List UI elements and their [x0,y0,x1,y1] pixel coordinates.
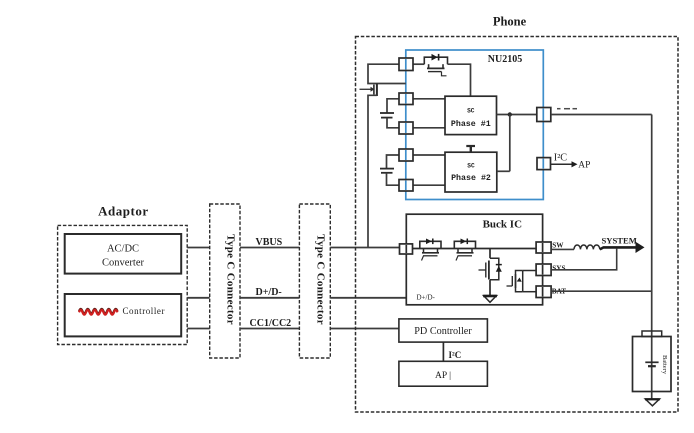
wire pin1 right to Q2 [413,63,424,65]
wire SYS up to system rail [551,248,617,269]
svg-text:SYSTEM: SYSTEM [602,236,637,246]
node junction dot [508,112,512,116]
phase 1 box [445,96,497,134]
wire M4 to SYS pin [523,270,536,272]
transistor Q2 channel/gate [428,64,430,68]
wire rail down to M3 [489,249,491,259]
type C connector 2 [299,204,330,358]
svg-text:Buck IC: Buck IC [483,219,522,231]
svg-text:Type C Connector: Type C Connector [315,234,327,325]
adaptor dashed box [58,225,188,344]
wire CC1/CC2 to PD controller [330,328,399,330]
transistor M2 body-diode loop [454,241,475,248]
svg-text:PD Controller: PD Controller [414,326,472,337]
wire VBUS between connectors [240,247,299,249]
transistor Q1 (VBUS FET) [360,88,371,90]
node VBAT rail down [651,115,653,400]
pin P2 [399,93,413,105]
wire inductor to SYSTEM arrow [600,247,636,249]
buck rail [406,248,536,250]
svg-text:I²C: I²C [554,153,567,164]
wire CC1/CC2 between connectors [240,328,299,330]
svg-text:Converter: Converter [102,258,144,269]
SYSTEM arrowhead [636,242,645,253]
capacitor C1 [380,112,394,114]
pin BAT [536,286,551,298]
transistor M2 channel/gate [457,249,459,253]
svg-text:CC1/CC2: CC1/CC2 [250,318,292,329]
battery ground [645,399,659,406]
battery body [633,337,672,392]
svg-text:Adaptor: Adaptor [98,204,148,219]
wire SW to inductor [551,248,574,250]
transistor M4 battery FET [516,271,523,275]
wire adaptor to connector1 (D) [187,297,210,299]
wire adaptor to connector1 (VBUS) [187,247,210,249]
svg-text:AP |: AP | [435,371,451,381]
transistor M1 channel/gate [423,249,425,253]
wire D+/D- into buck IC [330,297,406,299]
svg-text:Phase #1: Phase #1 [451,119,491,129]
svg-text:D+/D-: D+/D- [256,287,282,298]
wire I2C PD to AP [442,342,444,361]
pin P3 [399,122,413,134]
transistor M1 body-diode loop [420,241,441,248]
phase 2 box [445,152,497,192]
wire cap C1 to pin3 [387,118,399,128]
svg-text:SC: SC [467,108,475,115]
svg-text:AC/DC: AC/DC [107,244,139,255]
wire D+/D- between connectors [240,297,299,299]
inductor L1 [574,245,600,249]
pin VBAT out [537,108,551,122]
type C connector 1 [210,204,240,358]
svg-text:I²C: I²C [449,350,462,360]
stub on phase2 top [470,146,472,152]
phone dashed box [356,37,679,413]
svg-text:Phase #2: Phase #2 [451,173,491,183]
battery cell bars [645,361,658,363]
svg-text:SC: SC [467,163,475,170]
svg-text:Battery: Battery [661,355,668,375]
pin SYS [536,264,551,276]
transistor Q2 body-diode loop [424,57,447,64]
wire pin4 to phase2 [413,154,445,156]
svg-text:SYS: SYS [552,265,565,273]
wire junction down [509,115,511,172]
wire pin4 to cap C2 [387,155,400,169]
svg-text:SW: SW [552,242,564,250]
svg-text:VBUS: VBUS [256,237,283,248]
wire Q2 to phase1 top [448,64,471,96]
wire phase2 output [497,170,510,172]
wire pin5 to phase2 [413,184,445,186]
wire M3 to ground [489,280,491,296]
pin buck input [400,244,413,254]
wire M4 to BAT pin [523,291,536,293]
wire adaptor to connector1 (CC) [187,328,210,330]
pin P5 [399,180,413,192]
svg-text:AP: AP [578,160,590,170]
I2C arrow to AP [551,163,573,165]
svg-text:Phone: Phone [493,15,527,29]
diode of Q2 [432,54,438,61]
svg-text:Controller: Controller [123,306,166,316]
pin P4 [399,149,413,161]
wire pin1 left to Q1 [368,64,406,83]
transistor M3 low-side [490,258,499,280]
AC/DC converter box [65,234,182,274]
svg-text:D+/D-: D+/D- [417,294,436,302]
red squiggle (spellcheck) [79,309,118,314]
buck IC box [406,214,542,305]
wire VBAT pin to battery rail [551,114,652,116]
pin I2C [537,158,551,170]
buck edge through pins [406,243,542,297]
wire BAT to battery [551,290,652,292]
ground [484,296,497,303]
wire phase1 output [497,114,537,116]
capacitor C2 [380,168,394,170]
wire pin2 to cap C1 [387,99,399,113]
pin SW [536,242,551,253]
wire cap C2 to pin5 [387,173,400,185]
blue edge through pins [406,59,544,190]
AP box [399,361,488,386]
wire Q1 source down to VBUS [368,95,377,247]
wire pin3 to phase1 [413,127,445,129]
wire pin2 to phase1 [413,98,445,100]
pin P1 [399,58,413,71]
battery terminal [642,331,662,337]
controller box [65,294,182,336]
PD controller box [399,319,488,342]
wire VBUS into phone [330,247,399,249]
tiny dash label [557,108,577,110]
svg-text:NU2105: NU2105 [488,54,522,65]
svg-text:Type C Connector: Type C Connector [225,234,237,325]
NU2105 blue box [406,50,544,200]
